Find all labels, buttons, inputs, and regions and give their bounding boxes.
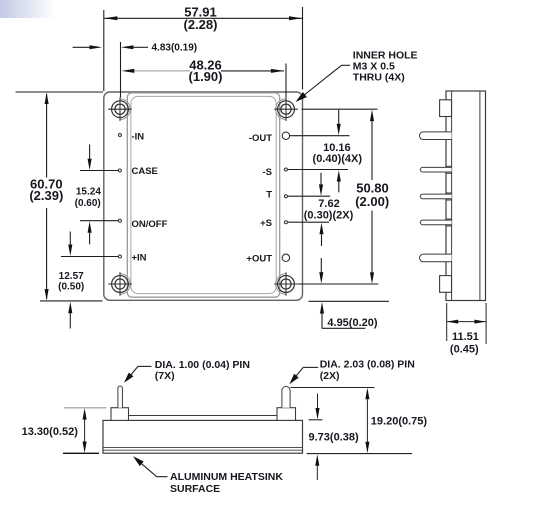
extension line -OUT	[290, 135, 350, 137]
arrow 19.20 down	[365, 442, 369, 454]
arrow leader inner hole	[296, 92, 307, 102]
svg-text:(0.60): (0.60)	[75, 198, 101, 209]
svg-text:50.80: 50.80	[356, 180, 389, 195]
svg-text:11.51: 11.51	[452, 331, 479, 343]
extension line bottom hole right	[298, 283, 379, 285]
dim 7.62 upper arrow shaft	[320, 173, 322, 185]
svg-text:9.73(0.38): 9.73(0.38)	[309, 432, 359, 444]
arrow 4.95 up	[320, 302, 324, 314]
arrow 4.95 down	[319, 272, 323, 284]
extension line top hole right	[302, 108, 378, 110]
standoff left	[111, 408, 129, 421]
side pin T	[420, 194, 451, 199]
svg-text:(2.28): (2.28)	[184, 17, 218, 32]
dim 10.16 lower arrow shaft	[338, 182, 340, 193]
arrow 57.91 left	[104, 16, 117, 20]
svg-text:(0.45): (0.45)	[450, 344, 479, 356]
arrow 7.62 up	[319, 223, 323, 235]
cover corner arc top-left	[120, 99, 130, 120]
leader dia 2.03	[303, 366, 318, 368]
dimension line 13.30	[84, 420, 86, 442]
svg-text:DIA. 2.03 (0.08) PIN: DIA. 2.03 (0.08) PIN	[320, 359, 415, 371]
dimension line 11.51	[447, 321, 486, 323]
svg-text:19.20(0.75): 19.20(0.75)	[371, 415, 428, 427]
side view boss bottom	[440, 276, 452, 293]
tick 9.73 top	[309, 419, 323, 421]
svg-text:4.95(0.20): 4.95(0.20)	[327, 317, 377, 329]
dim 10.16 upper arrow shaft	[338, 110, 340, 124]
arrow 13.30 down	[83, 442, 87, 454]
side view body	[446, 91, 486, 301]
side view boss top	[440, 100, 452, 117]
heatsink line upper	[103, 447, 303, 449]
side view inner wall left	[451, 92, 453, 300]
extension line pin column left	[120, 42, 122, 98]
extension line CASE	[80, 170, 118, 172]
dimension line 19.20	[366, 399, 368, 442]
cover corner arc top-right	[276, 99, 286, 120]
side pin +S	[420, 220, 451, 225]
dim 12.57 lower arrow shaft	[69, 313, 71, 328]
svg-text:(0.50): (0.50)	[58, 281, 84, 292]
svg-text:(7X): (7X)	[155, 370, 175, 382]
pin -OUT	[282, 132, 289, 139]
side pin seat T	[446, 193, 451, 200]
side view inner wall right	[479, 92, 481, 300]
extension line module top left	[16, 91, 104, 93]
dim 15.24 upper arrow shaft	[89, 145, 91, 159]
leader inner hole	[299, 65, 342, 99]
svg-text:ALUMINUM HEATSINK: ALUMINUM HEATSINK	[170, 471, 283, 483]
svg-text:12.57: 12.57	[59, 271, 84, 282]
pin T	[284, 195, 287, 198]
side pin +OUT	[420, 254, 452, 262]
leader heatsink	[133, 456, 144, 466]
arrow 4.83 left-pointing	[121, 45, 133, 49]
arrow 11.51 left	[447, 320, 459, 324]
extension lines 11.51	[446, 303, 448, 341]
ref line 13.30 bottom	[63, 452, 99, 454]
arrow 15.24 up	[88, 221, 92, 233]
front view module outline	[104, 92, 303, 300]
svg-text:+IN: +IN	[132, 253, 147, 264]
arrow 7.62 down	[319, 184, 323, 196]
dim 9.73 upper arrow shaft	[317, 394, 319, 409]
extension line ON/OFF	[80, 220, 118, 222]
arrow 19.20 up	[365, 388, 369, 400]
arrowheads	[45, 16, 375, 313]
svg-text:(0.40)(4X): (0.40)(4X)	[313, 153, 363, 165]
dim 48.26 right shaft	[221, 70, 284, 72]
ref line 9.73/19.20 bottom	[307, 453, 412, 455]
svg-text:+OUT: +OUT	[246, 254, 272, 265]
svg-text:(2.00): (2.00)	[355, 194, 389, 209]
svg-text:(2.39): (2.39)	[29, 188, 63, 203]
arrow 4.83 right-pointing	[90, 45, 103, 49]
dimension line 60.70 upper	[46, 94, 48, 178]
extension line +IN	[61, 256, 118, 258]
svg-text:(1.90): (1.90)	[189, 69, 223, 84]
side pin -OUT	[420, 132, 452, 140]
dimension line 57.91	[104, 17, 302, 19]
arrow 57.91 right	[289, 16, 302, 20]
dim 4.95 upper arrow shaft	[320, 258, 322, 272]
dimension line 60.70 lower	[46, 208, 48, 299]
arrow 50.80 top	[370, 110, 374, 122]
cover outline outer line	[127, 93, 279, 297]
svg-text:+S: +S	[260, 218, 272, 229]
side pin -S	[420, 167, 451, 172]
dim 4.83 outer shaft	[73, 46, 90, 48]
arrow 48.26 right	[271, 69, 284, 73]
svg-text:CASE: CASE	[132, 166, 158, 177]
mounting hole bottom-left	[108, 272, 132, 296]
dim 9.73 lower arrow shaft	[316, 466, 318, 480]
dim 48.26 left shaft gray	[134, 70, 190, 72]
arrow 10.16 down	[337, 124, 341, 136]
ref line 19.20 top	[291, 387, 375, 389]
svg-text:7.62: 7.62	[318, 198, 339, 210]
pin +OUT	[282, 254, 289, 261]
svg-text:(0.30)(2X): (0.30)(2X)	[304, 209, 354, 221]
dimension line 50.80	[371, 121, 373, 180]
cover top line	[129, 415, 278, 417]
arrow 13.30 up	[83, 408, 87, 420]
arrow 9.73 down	[315, 408, 319, 420]
cover corner arc bottom-left	[120, 274, 130, 295]
mounting hole top-left	[108, 97, 132, 121]
dim 7.62 lower arrow shaft	[321, 234, 323, 246]
side pin seat -S	[446, 166, 451, 173]
svg-text:ON/OFF: ON/OFF	[132, 219, 168, 230]
extension line -S	[288, 169, 348, 171]
extension line module right top	[302, 7, 304, 90]
mounting hole bottom-right	[274, 272, 298, 296]
leader dia 1.00	[138, 365, 152, 367]
bottom view pin small	[118, 386, 123, 408]
extension line module bottom left	[40, 300, 103, 302]
extension line module bottom right	[309, 300, 390, 302]
heatsink line lower	[103, 449, 303, 451]
arrow 60.70 top	[45, 93, 49, 105]
mounting hole top-right	[274, 97, 298, 121]
arrow 10.16 up	[337, 170, 341, 182]
svg-text:15.24: 15.24	[76, 187, 101, 198]
pin +S	[284, 221, 287, 224]
extension line pin column right	[285, 64, 287, 98]
bottom view pin big	[282, 387, 290, 408]
dim 15.24 lower arrow shaft	[89, 233, 91, 245]
dim 4.95 underline	[322, 327, 366, 329]
extension line module left top	[103, 10, 105, 91]
svg-text:SURFACE: SURFACE	[170, 483, 220, 495]
svg-text:-IN: -IN	[132, 132, 145, 143]
pin CASE	[118, 169, 121, 172]
pin -IN	[118, 134, 121, 137]
extension line T	[288, 195, 331, 197]
extension line +S	[288, 221, 329, 223]
svg-text:-S: -S	[263, 167, 273, 178]
svg-text:-OUT: -OUT	[249, 133, 272, 144]
arrow 12.57 up	[68, 302, 72, 314]
svg-text:THRU (4X): THRU (4X)	[353, 72, 405, 84]
cover outline inner line	[131, 96, 276, 293]
svg-text:13.30(0.52): 13.30(0.52)	[22, 426, 79, 438]
pin +IN	[118, 255, 121, 258]
arrow 9.73 up	[315, 454, 319, 466]
side pin seat +S	[446, 219, 451, 226]
svg-text:T: T	[266, 189, 272, 200]
standoff right	[277, 408, 296, 421]
pin -S	[284, 168, 287, 171]
ref line 13.30 top	[64, 407, 107, 409]
arrow 60.70 bottom	[45, 289, 49, 301]
bottom view body	[103, 420, 303, 453]
dim 4.83 inner shaft	[133, 46, 148, 48]
cover corner arc bottom-right	[276, 274, 286, 295]
dim 12.57 upper arrow shaft	[69, 232, 71, 245]
svg-text:(2X): (2X)	[320, 370, 340, 382]
arrow 11.51 right	[474, 320, 486, 324]
arrow 48.26 left	[121, 69, 134, 73]
arrow 15.24 down	[88, 159, 92, 171]
arrow 12.57 down	[68, 245, 72, 257]
svg-text:4.83(0.19): 4.83(0.19)	[152, 43, 198, 54]
dim 4.95 lower arrow shaft	[321, 314, 323, 329]
pin ON/OFF	[118, 219, 121, 222]
arrow 50.80 bottom	[370, 272, 374, 284]
